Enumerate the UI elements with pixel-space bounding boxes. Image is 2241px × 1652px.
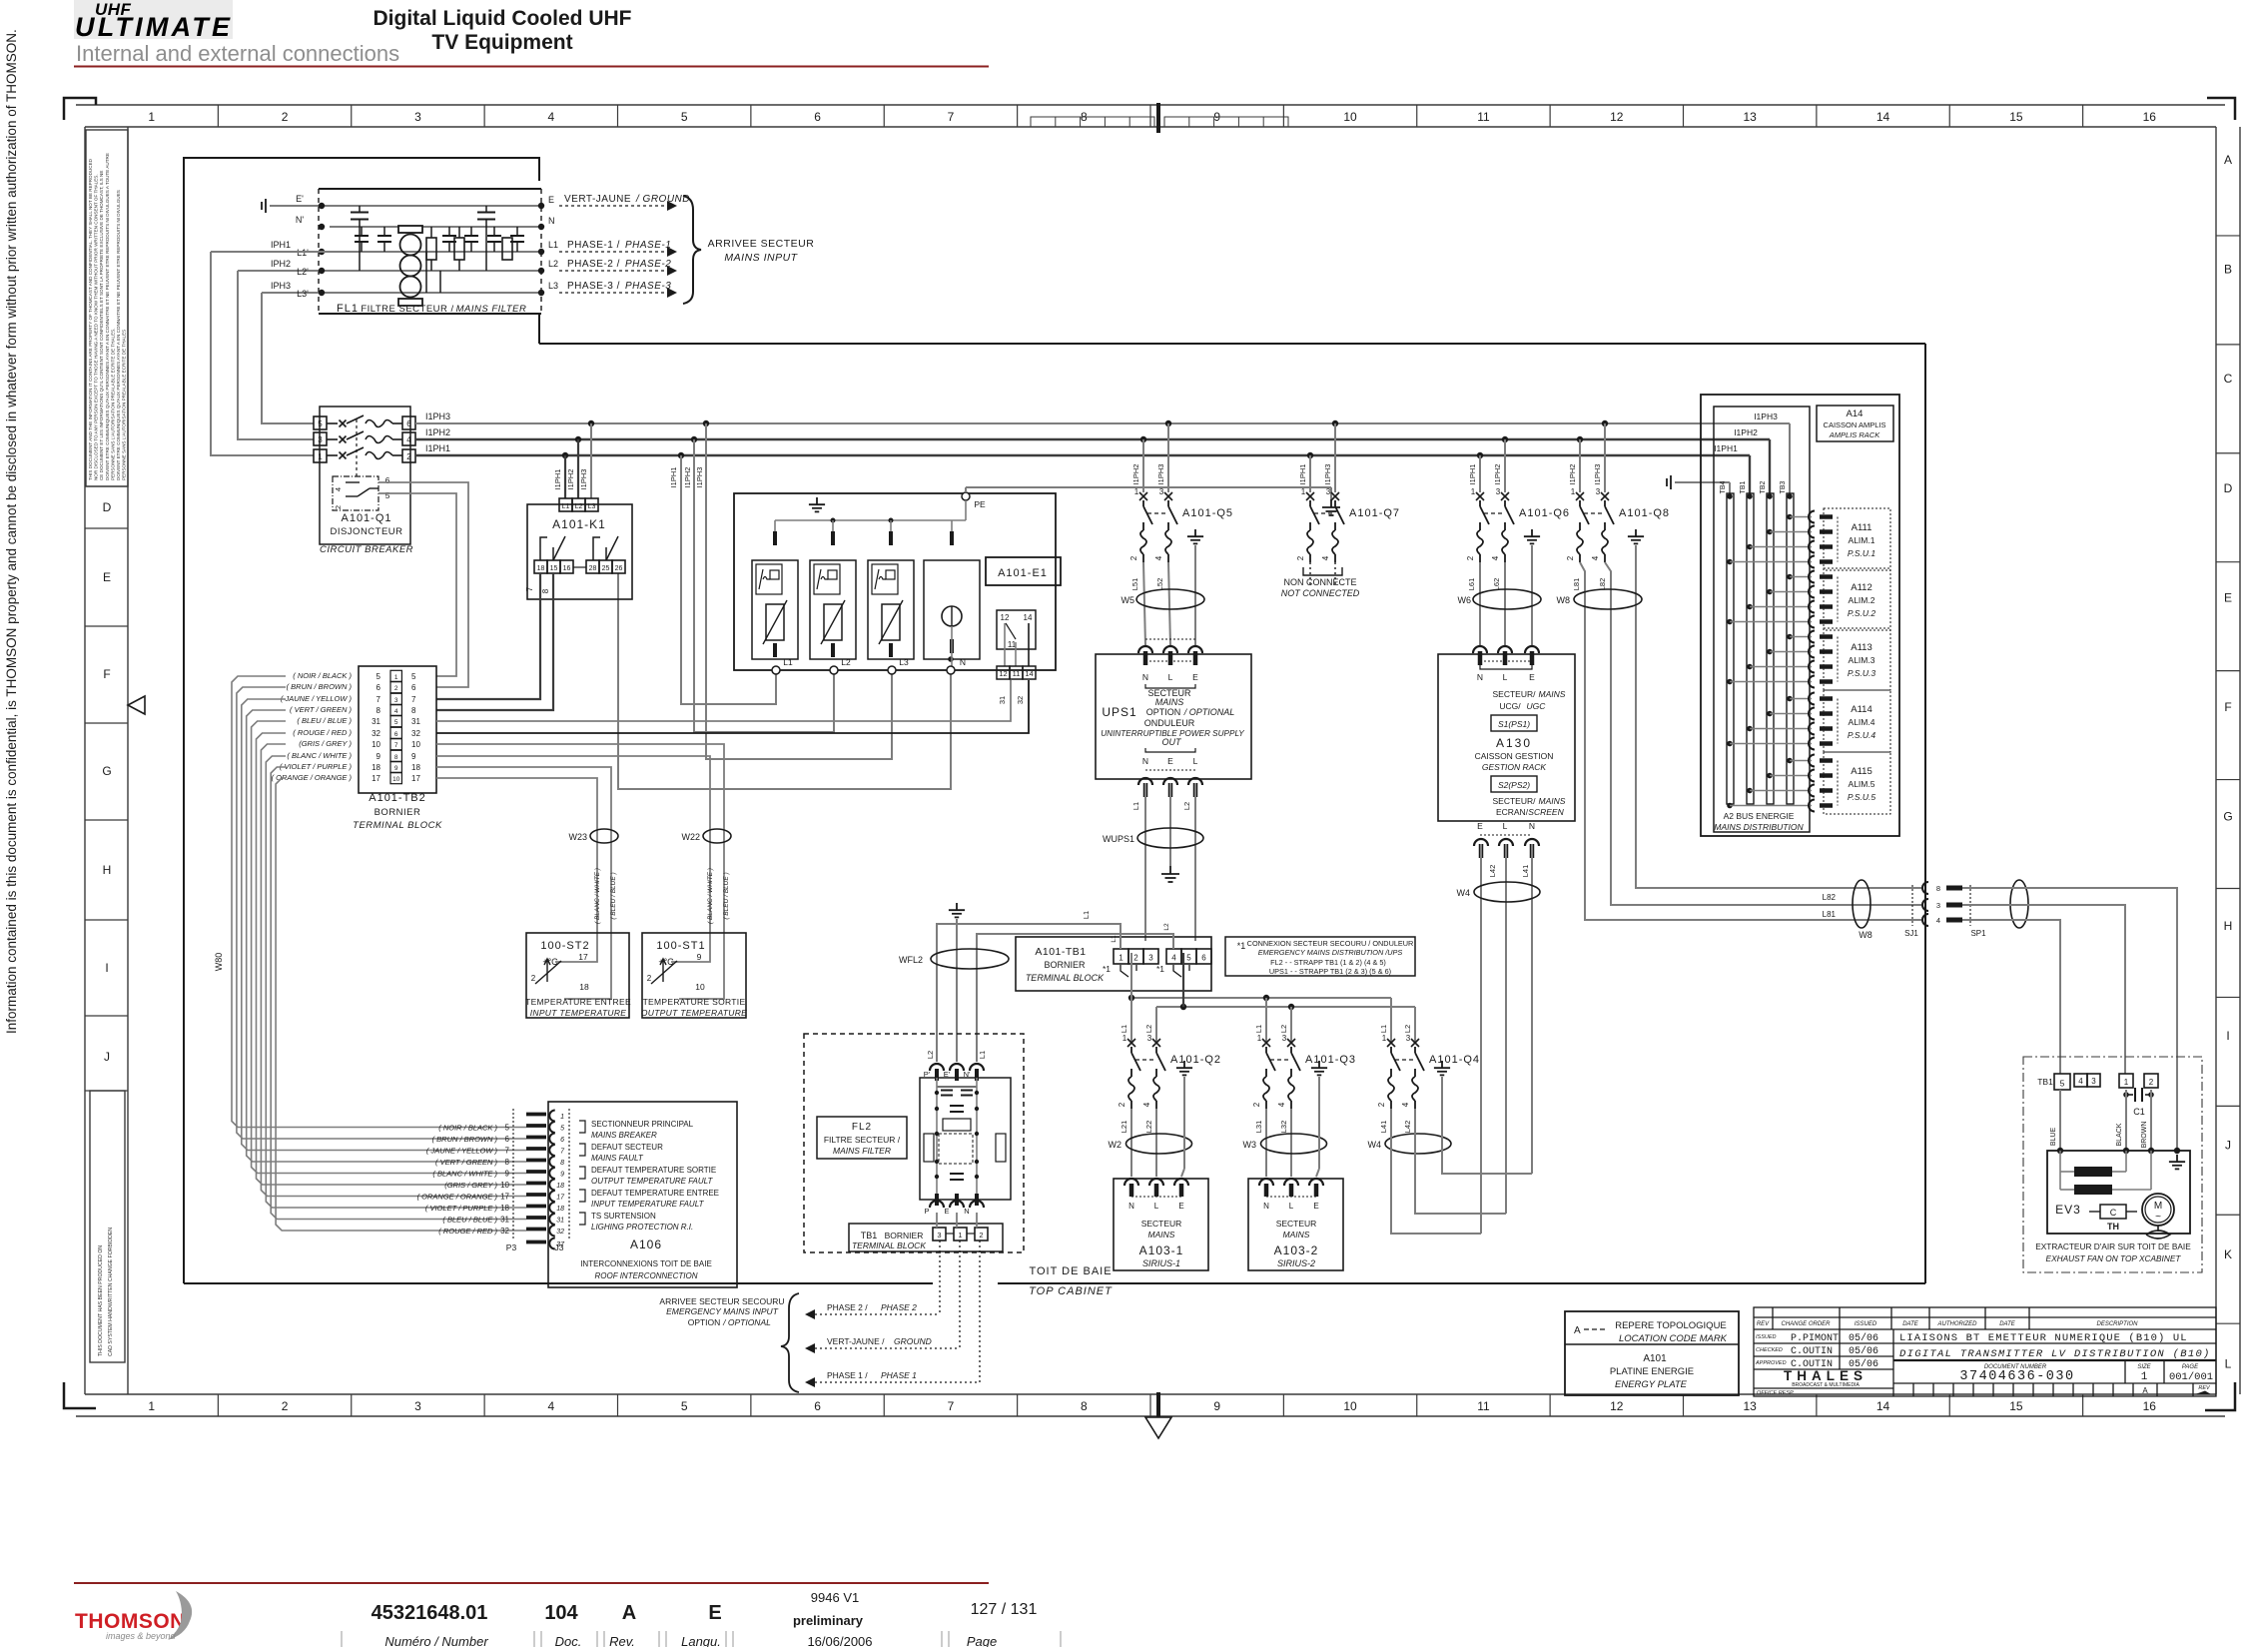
- svg-text:L1: L1: [1082, 911, 1091, 919]
- svg-text:GROUND: GROUND: [894, 1336, 932, 1346]
- title block header row texts: [1757, 1321, 2138, 1327]
- svg-text:DATE: DATE: [1999, 1321, 2016, 1327]
- FL1 vertical links: [425, 252, 427, 293]
- svg-text:L: L: [1503, 672, 1508, 682]
- FL2 top connector arcs: [930, 1064, 944, 1071]
- bus bar TB4: [1727, 493, 1734, 804]
- svg-text:I1PH1: I1PH1: [553, 469, 562, 490]
- svg-text:SP1: SP1: [1970, 929, 1986, 938]
- svg-text:MAINS: MAINS: [1148, 1230, 1175, 1239]
- svg-text:F: F: [2224, 700, 2231, 714]
- svg-text:TV Equipment: TV Equipment: [431, 31, 572, 54]
- svg-text:N: N: [548, 216, 555, 226]
- svg-text:18: 18: [411, 763, 420, 772]
- svg-text:1: 1: [1571, 487, 1576, 496]
- svg-text:15: 15: [2009, 1399, 2023, 1413]
- svg-text:A130: A130: [1496, 736, 1532, 750]
- svg-text:4: 4: [394, 708, 398, 715]
- svg-text:MAINS: MAINS: [1539, 689, 1566, 699]
- svg-text:preliminary: preliminary: [793, 1613, 864, 1628]
- svg-text:13: 13: [1744, 110, 1758, 124]
- svg-text:PHASE 1 /: PHASE 1 /: [827, 1370, 868, 1380]
- svg-text:4: 4: [1591, 555, 1600, 560]
- svg-text:EXTRACTEUR D'AIR SUR TOIT: EXTRACTEUR D'AIR SUR TOIT DE BAIE: [2035, 1241, 2191, 1251]
- wire aux 6 to TB2 row6: [378, 482, 468, 687]
- svg-text:GESTION RACK: GESTION RACK: [1482, 762, 1547, 772]
- surge module 4 gas lamp: [924, 560, 980, 659]
- cable W22: [703, 829, 731, 843]
- svg-text:PHASE 2: PHASE 2: [881, 1302, 917, 1312]
- breaker A101-Q4: [1377, 1034, 1480, 1109]
- wire FL2 L1 to TB1-1: [937, 924, 1120, 1062]
- svg-text:ROOF INTERCONNECTION: ROOF INTERCONNECTION: [595, 1271, 698, 1280]
- svg-text:32: 32: [411, 729, 420, 738]
- motor M1: [2142, 1194, 2174, 1226]
- svg-text:3: 3: [1326, 487, 1331, 496]
- EV3 internal earth: [2169, 1155, 2185, 1169]
- svg-text:MAINS BREAKER: MAINS BREAKER: [591, 1131, 657, 1140]
- svg-text:I1PH1: I1PH1: [425, 443, 450, 453]
- svg-text:A103-1: A103-1: [1139, 1243, 1184, 1257]
- svg-text:32: 32: [372, 729, 380, 738]
- svg-text:IPH3: IPH3: [271, 281, 291, 291]
- svg-text:E: E: [1313, 1202, 1318, 1211]
- svg-text:VERT-JAUNE: VERT-JAUNE: [564, 194, 631, 205]
- svg-text:L32: L32: [1279, 1121, 1288, 1134]
- ground tap feeding TB4: [1667, 475, 1671, 489]
- svg-text:H: H: [2224, 919, 2233, 933]
- Q6 feed from bus I1PH1: [1477, 452, 1483, 458]
- svg-text:2: 2: [1377, 1102, 1386, 1107]
- svg-text:TERMINAL BLOCK: TERMINAL BLOCK: [852, 1240, 926, 1250]
- svg-text:14: 14: [1025, 669, 1033, 678]
- svg-text:C: C: [2224, 372, 2233, 386]
- enclosure bottom / top-cabinet line: [184, 1282, 933, 1284]
- svg-text:L3: L3: [588, 503, 596, 510]
- svg-text:LIGHING PROTECTION R.I.: LIGHING PROTECTION R.I.: [591, 1223, 693, 1232]
- location code box: [1565, 1311, 1739, 1395]
- svg-text:L1: L1: [783, 657, 793, 667]
- svg-text:8: 8: [560, 1160, 564, 1167]
- fold mark top: [1156, 103, 1160, 133]
- svg-text:32: 32: [500, 1227, 509, 1236]
- svg-text:L41: L41: [1521, 865, 1530, 878]
- svg-text:W3: W3: [1243, 1140, 1257, 1150]
- bus bar TB2: [1767, 493, 1774, 804]
- svg-text:MAINS FAULT: MAINS FAULT: [591, 1154, 644, 1163]
- svg-text:MAINS INPUT: MAINS INPUT: [724, 252, 798, 264]
- svg-text:DOIVENT ETRE COMMUNIQUES QU'AU: DOIVENT ETRE COMMUNIQUES QU'AUX PERSONNE…: [105, 153, 110, 480]
- Q6 earth: [1524, 529, 1540, 543]
- FL2 internal components: [941, 1091, 953, 1096]
- svg-text:NON CONNECTE: NON CONNECTE: [1283, 577, 1356, 587]
- wire E row in FL1: [270, 205, 541, 207]
- svg-text:4: 4: [1401, 1102, 1410, 1107]
- svg-text:4: 4: [1491, 555, 1500, 560]
- svg-text:W4: W4: [1457, 888, 1471, 898]
- svg-text:TB4: TB4: [1720, 480, 1727, 493]
- svg-text:M: M: [2154, 1201, 2162, 1212]
- svg-text:FL1: FL1: [337, 303, 359, 315]
- wire drop to K1 L2: [575, 436, 581, 442]
- Q5 output wires: [1143, 562, 1145, 646]
- FL2 bottom connector arcs: [930, 1201, 944, 1208]
- svg-text:A101-K1: A101-K1: [552, 517, 606, 531]
- terminal block R101-TB1 box: [1016, 937, 1211, 991]
- svg-text:2: 2: [1566, 555, 1575, 560]
- svg-text:45321648.01: 45321648.01: [372, 1602, 488, 1624]
- svg-text:MAINS FILTER: MAINS FILTER: [456, 304, 527, 315]
- surge arrester A101-E1 box: [734, 493, 1056, 670]
- svg-text:A113: A113: [1851, 642, 1871, 653]
- breaker A101-Q4 pole 1: [1387, 1039, 1395, 1047]
- svg-text:OUTPUT TEMPERATURE FAULT: OUTPUT TEMPERATURE FAULT: [591, 1177, 713, 1186]
- svg-text:A101-Q2: A101-Q2: [1170, 1054, 1221, 1066]
- svg-text:FILTRE SECTEUR /: FILTRE SECTEUR /: [824, 1135, 901, 1145]
- svg-text:I1PH2: I1PH2: [1734, 427, 1758, 437]
- wire K1 output 8: [436, 573, 553, 710]
- svg-text:12: 12: [1610, 110, 1624, 124]
- svg-text:TB2: TB2: [1760, 480, 1767, 493]
- label box A14: [1817, 406, 1893, 441]
- svg-text:16: 16: [2143, 110, 2157, 124]
- svg-text:10: 10: [392, 776, 400, 783]
- svg-text:1: 1: [1134, 487, 1139, 496]
- svg-text:100-ST1: 100-ST1: [656, 940, 705, 952]
- svg-text:L1: L1: [1131, 802, 1140, 810]
- svg-text:TB1: TB1: [2037, 1077, 2053, 1087]
- breaker A101-Q2 pole 1: [1127, 1039, 1135, 1047]
- svg-text:8: 8: [505, 1158, 510, 1167]
- title block table: [1754, 1307, 2216, 1396]
- svg-text:CAISSON AMPLIS: CAISSON AMPLIS: [1824, 420, 1886, 429]
- wire drop to E1 L2: [691, 436, 697, 442]
- FL2 TB1 terminals 3 1 2: [933, 1228, 946, 1240]
- svg-text:A101-Q3: A101-Q3: [1305, 1054, 1356, 1066]
- svg-text:ALIM.1: ALIM.1: [1849, 535, 1875, 545]
- breaker A101-Q4 pole 2: [1411, 1039, 1419, 1047]
- svg-text:L3: L3: [548, 281, 558, 291]
- cable W8 at connector: [1853, 880, 1870, 928]
- svg-text:3: 3: [1596, 487, 1601, 496]
- energy plate enclosure outline: [184, 158, 539, 1283]
- cable W6: [1473, 589, 1541, 609]
- svg-text:5: 5: [1186, 954, 1191, 963]
- A101-Q3 earth: [1311, 1061, 1327, 1075]
- breaker A101-Q5 pole 1: [1139, 492, 1147, 500]
- svg-text:L82: L82: [1823, 893, 1837, 902]
- note box strapp options: [1225, 937, 1415, 976]
- svg-text:17: 17: [411, 774, 420, 783]
- wire FL2 N to TB1-4: [977, 934, 1173, 1062]
- svg-text:L2: L2: [1163, 923, 1170, 931]
- svg-text:TERMINAL BLOCK: TERMINAL BLOCK: [353, 820, 442, 831]
- A101-Q1 poles: [327, 422, 338, 424]
- svg-text:PHASE-3 /: PHASE-3 /: [567, 281, 620, 292]
- UPS1 output earth: [1161, 866, 1179, 882]
- breaker A101-Q6: [1466, 487, 1570, 562]
- svg-text:3: 3: [1496, 487, 1501, 496]
- svg-text:L2: L2: [575, 503, 583, 510]
- svg-text:A101-TB2: A101-TB2: [369, 792, 426, 804]
- svg-text:C1: C1: [2133, 1107, 2145, 1117]
- svg-text:P.S.U.3: P.S.U.3: [1848, 668, 1875, 678]
- svg-text:WFL2: WFL2: [899, 955, 923, 965]
- svg-text:CONNEXION SECTEUR SECOURU / ON: CONNEXION SECTEUR SECOURU / ONDULEUR: [1247, 939, 1414, 948]
- FL1 internal capacitors: [355, 236, 369, 242]
- bus bar TB3: [1787, 493, 1794, 804]
- A101-Q4 output wires: [1390, 1109, 1392, 1177]
- Q8 feed from bus I1PH3: [1602, 420, 1608, 426]
- svg-text:REV: REV: [2198, 1385, 2211, 1391]
- svg-text:9: 9: [560, 1172, 564, 1179]
- svg-text:3: 3: [414, 1399, 421, 1413]
- svg-text:PHASE 1: PHASE 1: [881, 1370, 917, 1380]
- svg-text:CIRCUIT BREAKER: CIRCUIT BREAKER: [320, 544, 413, 555]
- svg-text:AMPLIS RACK: AMPLIS RACK: [1829, 430, 1880, 439]
- svg-text:BROWN: BROWN: [2141, 1122, 2148, 1149]
- svg-text:I1PH3: I1PH3: [1156, 464, 1165, 485]
- svg-text:I1PH3: I1PH3: [695, 467, 704, 488]
- svg-text:A101-Q6: A101-Q6: [1519, 507, 1570, 519]
- svg-text:Information contained is this: Information contained is this document i…: [4, 29, 19, 1034]
- svg-text:5: 5: [318, 419, 323, 428]
- mains input brace: [683, 196, 701, 304]
- svg-text:BLUE: BLUE: [2050, 1128, 2057, 1147]
- bus I1PH3: [415, 422, 1790, 424]
- svg-text:W5: W5: [1121, 595, 1135, 605]
- bus bar TB1: [1747, 493, 1754, 804]
- svg-text:L: L: [1193, 756, 1198, 766]
- svg-text:I1PH3: I1PH3: [425, 412, 450, 421]
- EV3 terminal 5: [2054, 1074, 2070, 1090]
- wire TB2 row17 to ST2: [436, 778, 597, 962]
- svg-text:A101-Q7: A101-Q7: [1349, 507, 1400, 519]
- svg-text:UPS1 - - STRAPP TB1 (2 & 3: UPS1 - - STRAPP TB1 (2 & 3) (5 & 6): [1269, 967, 1391, 976]
- A130 box: [1438, 654, 1575, 821]
- svg-text:L1: L1: [1120, 1025, 1128, 1033]
- breaker A101-Q2: [1118, 1034, 1221, 1109]
- svg-text:L62: L62: [1492, 578, 1501, 591]
- svg-text:Doc.: Doc.: [555, 1634, 582, 1647]
- PSU A113 connections: [1787, 634, 1793, 640]
- svg-text:P.PIMONT: P.PIMONT: [1791, 1333, 1839, 1344]
- wire SP1 to EV3 blue: [1962, 920, 2060, 1074]
- svg-text:DATE: DATE: [1902, 1321, 1919, 1327]
- svg-text:DIGITAL TRANSMITTER LV DISTRIB: DIGITAL TRANSMITTER LV DISTRIBUTION (B10…: [1899, 1348, 2211, 1360]
- svg-text:DOIVENT ETRE COMMUNIQUES QU'AU: DOIVENT ETRE COMMUNIQUES QU'AUX PERSONNE…: [116, 190, 121, 480]
- svg-text:18: 18: [556, 1206, 564, 1213]
- svg-text:3: 3: [937, 1231, 941, 1239]
- svg-text:12: 12: [1001, 613, 1010, 622]
- svg-text:7: 7: [505, 1147, 510, 1156]
- svg-text:A111: A111: [1852, 522, 1872, 533]
- svg-text:( VERT / GREEN ): ( VERT / GREEN ): [290, 705, 352, 714]
- breaker A101-Q7 pole 2: [1331, 492, 1339, 500]
- svg-text:4: 4: [1142, 1102, 1151, 1107]
- svg-text:SIZE: SIZE: [2137, 1364, 2151, 1370]
- svg-text:APPROVED: APPROVED: [1755, 1360, 1787, 1366]
- rack A14 outer box: [1701, 395, 1899, 836]
- svg-text:ECRAN/: ECRAN/: [1496, 807, 1529, 817]
- svg-text:32: 32: [556, 1229, 564, 1236]
- FL2 earth symbol: [949, 903, 965, 917]
- EV3 terminals 4 3: [2074, 1074, 2087, 1087]
- svg-text:31: 31: [500, 1216, 509, 1225]
- svg-text:5: 5: [681, 1399, 688, 1413]
- circuit breaker A101-Q1 box: [320, 407, 410, 544]
- svg-text:25: 25: [602, 565, 610, 572]
- svg-text:16/06/2006: 16/06/2006: [807, 1634, 872, 1647]
- svg-text:L51: L51: [1130, 578, 1139, 591]
- THOMSON logo: [75, 1591, 192, 1641]
- K1 terminals L1 L2 L3: [559, 498, 572, 511]
- svg-text:ULTIMATE: ULTIMATE: [75, 12, 231, 42]
- EV3 winding 1: [2060, 1171, 2074, 1173]
- svg-text:E: E: [1477, 821, 1483, 831]
- svg-text:10: 10: [1343, 110, 1357, 124]
- svg-text:( BLEU / BLUE ): ( BLEU / BLUE ): [610, 872, 617, 919]
- svg-text:W8: W8: [1557, 595, 1571, 605]
- svg-text:10: 10: [372, 740, 380, 749]
- svg-text:E': E': [944, 1070, 951, 1079]
- FL1 choke windings: [398, 226, 422, 306]
- E1 internal top rail: [775, 519, 966, 521]
- svg-text:12: 12: [999, 669, 1007, 678]
- svg-text:2: 2: [1129, 555, 1138, 560]
- svg-text:E: E: [1167, 756, 1173, 766]
- cable W5: [1136, 589, 1204, 609]
- svg-text:6: 6: [814, 110, 821, 124]
- svg-text:SECTEUR: SECTEUR: [1141, 1219, 1182, 1229]
- breaker A101-Q8 pole 1: [1576, 492, 1584, 500]
- svg-text:BORNIER: BORNIER: [374, 807, 421, 818]
- EV3 wire black: [2125, 1090, 2127, 1151]
- enclosure hook at FL1 bottom: [538, 314, 540, 344]
- svg-text:2: 2: [1133, 954, 1138, 963]
- svg-text:14: 14: [1024, 613, 1033, 622]
- label box A101-E1: [986, 557, 1061, 585]
- svg-text:A101-Q4: A101-Q4: [1429, 1054, 1480, 1066]
- svg-text:L1: L1: [1379, 1025, 1388, 1033]
- svg-text:SCREEN: SCREEN: [1528, 807, 1564, 817]
- svg-text:I1PH1: I1PH1: [1298, 464, 1307, 485]
- Q7 output stubs dotted: [1309, 562, 1311, 584]
- svg-text:2: 2: [1118, 1102, 1126, 1107]
- svg-text:OUTPUT TEMPERATURE: OUTPUT TEMPERATURE: [641, 1008, 747, 1018]
- contactor A101-K1 box: [527, 504, 632, 599]
- svg-text:3: 3: [1406, 1034, 1411, 1043]
- svg-text:7: 7: [376, 695, 381, 704]
- wires FL2 P E N to TB1 bornier: [936, 1213, 938, 1228]
- svg-text:TOIT DE BAIE: TOIT DE BAIE: [1029, 1265, 1112, 1277]
- svg-text:DEFAUT TEMPERATURE ENTREE: DEFAUT TEMPERATURE ENTREE: [591, 1189, 719, 1198]
- svg-text:8: 8: [1936, 884, 1940, 893]
- svg-text:IPH1: IPH1: [271, 240, 291, 250]
- Q6 output wires: [1479, 562, 1481, 646]
- svg-text:TB1: TB1: [1740, 480, 1747, 493]
- svg-text:1: 1: [148, 1399, 155, 1413]
- svg-text:104: 104: [544, 1602, 578, 1624]
- EV3 terminal 2: [2144, 1074, 2158, 1088]
- roof interconnection A106 box: [548, 1102, 737, 1287]
- svg-text:N: N: [1477, 672, 1483, 682]
- svg-text:8: 8: [394, 754, 398, 761]
- svg-text:L61: L61: [1467, 578, 1476, 591]
- svg-text:P': P': [924, 1070, 931, 1079]
- svg-text:1: 1: [1301, 487, 1306, 496]
- svg-text:N: N: [1142, 756, 1148, 766]
- svg-text:2: 2: [282, 1399, 289, 1413]
- svg-text:SECTIONNEUR PRINCIPAL: SECTIONNEUR PRINCIPAL: [591, 1120, 694, 1129]
- svg-text:L: L: [1168, 672, 1173, 682]
- svg-text:9946 V1: 9946 V1: [811, 1590, 859, 1605]
- subtitle underline: [74, 66, 989, 68]
- E1 relay contact: [997, 610, 1036, 649]
- svg-text:ISSUED: ISSUED: [1855, 1321, 1877, 1327]
- svg-text:PE: PE: [974, 499, 986, 509]
- svg-text:4: 4: [1171, 954, 1176, 963]
- surge module 1: [752, 560, 798, 659]
- svg-text:32: 32: [1016, 696, 1025, 704]
- svg-text:B: B: [2224, 263, 2232, 277]
- breaker A101-Q2 pole 2: [1152, 1039, 1160, 1047]
- svg-text:REV: REV: [1757, 1321, 1770, 1327]
- svg-text:6: 6: [406, 419, 411, 428]
- svg-text:SECTEUR/: SECTEUR/: [1493, 689, 1537, 699]
- Q4 earth: [1434, 1061, 1450, 1075]
- svg-text:I1PH3: I1PH3: [1323, 464, 1332, 485]
- svg-text:I1PH2: I1PH2: [1131, 464, 1140, 485]
- A101-Q2 earth: [1176, 1061, 1192, 1075]
- svg-text:E: E: [1178, 1202, 1183, 1211]
- svg-text:PAGE: PAGE: [2182, 1364, 2199, 1370]
- K1 output terminals 18 15 16: [534, 560, 547, 573]
- capacitor C1: [2126, 1094, 2133, 1096]
- svg-text:ISSUED: ISSUED: [1756, 1334, 1777, 1340]
- SJ1 contact 4: [1922, 914, 1928, 926]
- bus secours line 1: [1131, 997, 1391, 999]
- svg-text:/ OPTIONAL: / OPTIONAL: [722, 1317, 771, 1327]
- svg-text:L81: L81: [1823, 910, 1837, 919]
- svg-text:K: K: [2224, 1247, 2232, 1261]
- svg-text:2: 2: [394, 685, 398, 692]
- svg-text:6: 6: [411, 683, 416, 692]
- svg-text:Digital Liquid Cooled UHF: Digital Liquid Cooled UHF: [373, 7, 632, 30]
- svg-text:8: 8: [376, 706, 381, 715]
- A101-Q1 input terminal 1: [314, 449, 327, 462]
- svg-text:NOR DISCLOSED TO ANY PERSON EX: NOR DISCLOSED TO ANY PERSON EXCEPT TO TH…: [94, 174, 99, 480]
- wire mains input phase3 dashed: [559, 292, 667, 294]
- A101-Q1 output terminal 2: [402, 449, 415, 462]
- svg-text:ALIM.5: ALIM.5: [1849, 779, 1875, 789]
- FL1 resistors: [426, 238, 436, 260]
- svg-text:1: 1: [2141, 1371, 2148, 1383]
- svg-text:Langu.: Langu.: [681, 1634, 721, 1647]
- svg-text:1: 1: [560, 1114, 564, 1121]
- svg-text:TEMPERATURE SORTIE: TEMPERATURE SORTIE: [643, 997, 746, 1007]
- svg-text:I1PH2: I1PH2: [566, 469, 575, 490]
- svg-text:P.S.U.1: P.S.U.1: [1848, 548, 1875, 558]
- svg-text:A106: A106: [630, 1238, 662, 1251]
- svg-text:1: 1: [1119, 954, 1123, 963]
- svg-text:/ GROUND: / GROUND: [635, 194, 690, 205]
- svg-text:S1(PS1): S1(PS1): [1498, 719, 1530, 729]
- svg-text:C.OUTIN: C.OUTIN: [1791, 1346, 1833, 1357]
- svg-text:THALES: THALES: [1784, 1368, 1867, 1383]
- svg-text:BLACK: BLACK: [2116, 1123, 2123, 1146]
- svg-text:5: 5: [505, 1124, 510, 1133]
